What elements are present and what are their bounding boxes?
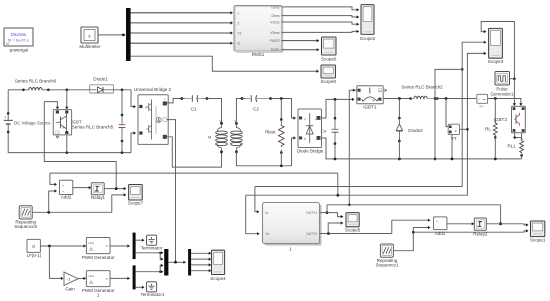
wire mux to demux D — [168, 261, 184, 263]
subsystem 1 — [263, 203, 322, 252]
wire gate of IGBT1 — [349, 90, 356, 205]
wire current tap up — [435, 69, 462, 158]
svg-text:A: A — [304, 117, 306, 121]
bridge Diode Bridge — [298, 109, 322, 148]
svg-text:IGBT1: IGBT1 — [363, 105, 377, 110]
wire into Universal Bridge in1 — [131, 90, 134, 107]
wire PWM Generator to demux A — [110, 245, 128, 247]
sum block Add1 — [434, 217, 447, 236]
wire IGBT collector — [66, 90, 68, 108]
wire v+ into VT — [446, 99, 448, 127]
repeating sequence Repeating Sequence1 — [375, 244, 398, 267]
svg-text:Uref: Uref — [88, 274, 94, 278]
svg-text:C2: C2 — [253, 106, 259, 111]
terminator Terminator1 — [140, 282, 164, 297]
wire top rail right — [114, 89, 131, 91]
demux DemuxB bar — [133, 265, 136, 289]
transistor IGBT — [53, 110, 82, 139]
transformer M — [208, 121, 242, 154]
inductor Series RLC Branch6 — [24, 88, 50, 92]
svg-text:Diode1: Diode1 — [93, 77, 108, 82]
svg-text:Series RLC Branch6: Series RLC Branch6 — [15, 79, 57, 84]
scope Scope3 — [488, 28, 504, 64]
wire Io drop to subsystem — [255, 187, 258, 212]
svg-text:B: B — [304, 137, 306, 141]
svg-text:Terminator: Terminator — [141, 245, 163, 250]
svg-text:Add2: Add2 — [61, 195, 72, 200]
powergui block — [4, 28, 33, 53]
svg-text:+: + — [62, 184, 64, 188]
svg-text:DUTY1: DUTY1 — [307, 211, 318, 215]
scope Scope1 — [530, 221, 546, 243]
wire diode bridge - to bottom rail — [322, 138, 522, 159]
wire demux out2 to RMS1 in2 — [131, 22, 231, 24]
wire constant branch down to Gain — [49, 246, 61, 278]
svg-text:IGBT: IGBT — [71, 119, 81, 124]
wire gate line drop to relay output — [500, 205, 502, 224]
wire feedback corner down — [337, 173, 339, 195]
svg-text:Gain: Gain — [65, 287, 75, 292]
scope Scope5 — [345, 213, 361, 233]
terminator Terminator — [141, 235, 163, 250]
svg-text:Add1: Add1 — [435, 231, 446, 236]
wire VT out to Scope3 in3 and feedback — [246, 53, 485, 195]
bridge Universal Bridge 2 — [138, 95, 168, 145]
dc voltage source DC Voltage Source — [4, 113, 51, 133]
wire top rail mid — [48, 89, 89, 91]
svg-text:Diode2: Diode2 — [408, 128, 423, 133]
svg-text:Rlest: Rlest — [265, 130, 276, 135]
demux DemuxA bar — [133, 233, 136, 260]
gain Gain — [64, 272, 78, 292]
wire DUTY1 to Scope5 — [320, 213, 342, 217]
wire demux out5 to Scope8 — [131, 56, 317, 71]
svg-text:Scope6: Scope6 — [321, 57, 337, 62]
relay Relay1 — [91, 183, 106, 200]
inductor Series RLC Branch2 — [411, 96, 439, 100]
wire diode bridge B to rail — [292, 138, 295, 166]
mux MuxC bar — [164, 249, 168, 276]
wire node to Scope3 in2 — [462, 42, 484, 69]
wire demuxB out1 to mux in4 — [136, 271, 162, 273]
diode Diode1 — [90, 85, 114, 93]
wire RMS1 out1 to Scope2 in1 — [282, 7, 358, 10]
svg-text:I1rms: I1rms — [272, 5, 280, 9]
wire PulseGenerator1 to Scope3 in1 — [481, 22, 514, 79]
wire C2 to diode bridge A — [271, 99, 294, 119]
wire Vo drop — [246, 195, 258, 234]
svg-text:Scope2: Scope2 — [360, 36, 376, 41]
svg-text:Sequence2: Sequence2 — [14, 224, 37, 229]
svg-text:+: + — [436, 220, 438, 224]
transistor IGBT1 — [357, 86, 387, 110]
svg-text:Io: Io — [266, 211, 269, 215]
svg-text:i+ -: i+ - — [480, 105, 486, 109]
svg-text:Scope7: Scope7 — [128, 201, 144, 206]
svg-text:RL1: RL1 — [507, 144, 516, 149]
demux Demux1 (bus selector bar) — [126, 8, 131, 61]
svg-text:-: - — [164, 139, 165, 143]
svg-text:P: P — [106, 244, 108, 248]
scope Scope2 — [360, 5, 376, 42]
svg-text:Vo: Vo — [266, 232, 270, 236]
svg-text:Scope3: Scope3 — [488, 59, 504, 64]
svg-text:Generator1: Generator1 — [490, 91, 513, 96]
svg-text:Terminator1: Terminator1 — [140, 292, 164, 297]
svg-text:Scope8: Scope8 — [320, 79, 336, 84]
svg-text:Scope4: Scope4 — [210, 276, 226, 281]
wire DUTY2 branch to Scope5 in2 — [328, 223, 341, 234]
wire Gain to PWM Generator 1 — [78, 277, 84, 279]
svg-text:Series RLC Branch2: Series RLC Branch2 — [401, 84, 443, 89]
wire DC source left rail — [7, 90, 9, 114]
wire RS2 to Scope7 in2 — [112, 195, 125, 212]
wire demux out4 to RMS1 in4 — [131, 42, 231, 44]
svg-text:M: M — [208, 134, 211, 139]
svg-text:V2rms: V2rms — [270, 31, 280, 35]
wire demuxB to Terminator1 — [136, 286, 143, 288]
pwm generator PWM Generator — [82, 238, 115, 260]
wire RMS1 P1&P2 to Scope6 in1 — [282, 40, 318, 42]
capacitor Series RLC Branch5 — [119, 90, 126, 153]
capacitor C2 — [242, 95, 272, 111]
svg-text:RL: RL — [485, 127, 491, 132]
wire RS2 output — [32, 211, 112, 213]
wire demuxB out1 to mux in3 — [160, 265, 161, 271]
wire DUTY2 riser to Add1 in1 — [392, 220, 429, 233]
svg-text:RMS1: RMS1 — [252, 52, 265, 57]
svg-text:Sequence1: Sequence1 — [375, 262, 398, 267]
svg-text:DC Voltage Source: DC Voltage Source — [14, 120, 51, 125]
svg-text:Diode Bridge: Diode Bridge — [297, 149, 324, 154]
wire RS1 to Add1 in2 — [393, 228, 428, 251]
pulse generator Pulse Generator1 — [490, 72, 513, 97]
resistor RL1 — [507, 133, 523, 159]
svg-text:+: + — [4, 115, 6, 119]
svg-text:+: + — [62, 190, 64, 194]
svg-text:Uref: Uref — [88, 241, 94, 245]
svg-text:-: - — [315, 138, 316, 142]
wire transformer right top to C2 — [236, 99, 242, 124]
wire Add2 in1 drop — [50, 173, 55, 184]
wire multimeter to demux — [98, 34, 124, 36]
svg-text:Relay2: Relay2 — [473, 231, 488, 236]
repeating sequence Repeating Sequence2 — [14, 206, 37, 229]
wire Universal Bridge - return — [167, 137, 222, 167]
wire demux out3 to RMS1 in3 — [131, 32, 231, 34]
svg-text:v: v — [455, 129, 457, 133]
wire relay1 feedback to IGBT gate — [44, 102, 116, 189]
svg-text:C: C — [359, 98, 361, 102]
wire PWM Generator 1 to demux B — [110, 277, 128, 279]
svg-text:+: + — [164, 97, 166, 101]
wire constant to PWM Generator — [40, 245, 84, 247]
wire demuxD to Scope4 4 — [191, 270, 209, 272]
wire branch2 to current block — [437, 98, 476, 100]
svg-text:Series RLC Branch5: Series RLC Branch5 — [72, 125, 114, 130]
constant U*(0-1) — [27, 239, 42, 258]
svg-text:I2rms: I2rms — [272, 14, 280, 18]
svg-text:2: 2 — [238, 21, 240, 25]
svg-text:powergui: powergui — [10, 48, 29, 53]
scope Scope8 — [320, 65, 336, 84]
demux DemuxD bar — [188, 249, 191, 276]
svg-text:P: P — [106, 277, 108, 281]
wire Relay1 to Scope7 — [104, 188, 124, 190]
svg-text:DUTY2: DUTY2 — [307, 232, 318, 236]
wire diode bridge + to IGBT1 C — [322, 99, 353, 118]
multimeter U1 — [79, 27, 101, 49]
wire v- into VT — [451, 135, 453, 159]
wire top rail left — [8, 89, 23, 91]
wire RMS1 P2/P1 to Scope6 in2 — [282, 49, 318, 51]
wire RS2 branch to Add2 in2 — [49, 191, 55, 212]
svg-text:C1: C1 — [191, 106, 197, 111]
svg-text:P2/P1: P2/P1 — [271, 48, 280, 52]
wire demuxA to Terminator — [136, 239, 143, 241]
wire demuxD to Scope4 3 — [191, 264, 209, 266]
wire DUTY2 out — [320, 233, 392, 235]
wire Universal Bridge + up to C1 rail — [167, 99, 182, 103]
svg-text:V1rms: V1rms — [270, 21, 280, 25]
wire Add2 to Relay1 — [73, 187, 90, 189]
wire feedback to Add2 and subsystem Vo — [50, 172, 338, 174]
wire bottom rail to Universal Bridge in2 — [131, 133, 134, 153]
transistor IGBT3 — [512, 106, 526, 133]
svg-text:1: 1 — [238, 11, 240, 15]
wire IGBT3 emitters join — [515, 133, 522, 138]
wire RMS1 out2 to Scope2 in2 — [282, 16, 358, 17]
svg-text:V1: V1 — [238, 32, 242, 36]
subsystem RMS1 — [234, 5, 283, 57]
sum block Add2 — [60, 180, 73, 199]
svg-text:I2: I2 — [238, 42, 241, 46]
svg-text:0: 0 — [32, 244, 35, 249]
wire C1 to transformer — [207, 99, 222, 124]
svg-text:Scope5: Scope5 — [345, 228, 361, 233]
scope Scope4 — [210, 250, 226, 281]
scope Scope6 — [321, 37, 337, 62]
wire RMS1 out4 to Scope2 in4 — [282, 31, 358, 32]
wire demuxA out2 to mux in2 — [160, 253, 161, 259]
wire current block to IGBT3 — [487, 99, 521, 104]
diode Diode2 — [396, 99, 423, 159]
svg-text:Universal Bridge 2: Universal Bridge 2 — [134, 87, 172, 92]
wire RS1 branch to Scope1 in2 — [413, 231, 526, 232]
wire demux out1 to RMS1 in1 — [131, 12, 231, 14]
capacitor Co — [321, 99, 339, 158]
current measurement It — [477, 94, 488, 108]
wire Relay2 to Scope1 — [486, 224, 526, 225]
svg-text:P1&P2: P1&P2 — [270, 39, 280, 43]
wire demuxA out2 to mux in1 — [136, 252, 162, 254]
wire gate into IGBT — [44, 102, 57, 108]
wire IGBT emitter to bottom rail — [66, 135, 68, 153]
svg-text:U*(0-1): U*(0-1) — [27, 253, 42, 258]
wire RMS1 out3 to Scope2 in3 — [282, 22, 358, 24]
wire IGBT1 E to branch2 — [383, 98, 410, 100]
svg-text:PWM Generator: PWM Generator — [82, 255, 115, 260]
wire pulse gen to IGBT3 gate — [513, 79, 515, 104]
resistor Rlest — [265, 99, 284, 166]
wire demuxD to Scope4 2 — [191, 258, 209, 260]
wire gate line from Relay2 to IGBT1 — [327, 204, 501, 206]
wire transformer right bottom to rail — [236, 152, 291, 166]
wire DUTY1 branch up — [326, 205, 328, 213]
wire Add1 to Relay2 — [447, 223, 472, 225]
wire demuxD to Scope4 1 — [191, 252, 209, 254]
wire DC source to bottom rail — [8, 132, 131, 153]
svg-text:Scope1: Scope1 — [530, 238, 546, 243]
svg-text:Co: Co — [321, 128, 327, 133]
svg-text:E: E — [379, 98, 381, 102]
wire current feedback line — [255, 69, 462, 186]
svg-text:Ts = 1e-07 s.: Ts = 1e-07 s. — [7, 37, 29, 42]
pwm generator PWM Generator 1 — [82, 271, 115, 298]
relay Relay2 — [473, 218, 488, 236]
capacitor C1 — [182, 95, 209, 111]
svg-text:Relay1: Relay1 — [91, 195, 106, 200]
wire VT output junction — [460, 128, 468, 130]
svg-text:Multimeter: Multimeter — [79, 44, 101, 49]
wire Universal Bridge m down (long vertical) — [167, 120, 176, 263]
scope Scope7 — [128, 185, 144, 206]
resistor RL — [485, 99, 497, 159]
voltage measurement VT — [448, 124, 459, 141]
